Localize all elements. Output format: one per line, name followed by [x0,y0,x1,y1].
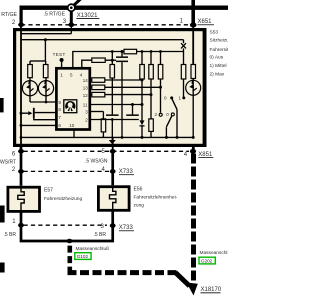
wire dashed ground horizontal [68,270,178,275]
node pin 2 junction dot [18,23,24,28]
wire x151 upper [150,52,152,65]
wire pole A to bus [176,109,178,137]
svg-text:1) Mittel: 1) Mittel [210,63,227,69]
wire: dashed connector line X851 below box [24,150,190,152]
wire pin6 line [21,124,56,126]
LED1 circle [22,81,37,96]
wire pin10 drop [73,130,75,138]
svg-text:10: 10 [69,123,75,128]
wire dashed ground down from junction [68,246,73,273]
capacitor C2 top plate [126,114,139,116]
svg-text:Fahrersitzlehnenhei-: Fahrersitzlehnenhei- [134,195,178,201]
node L4 x160.5 [159,50,162,53]
resistor x183.5 [181,65,186,80]
wire pin11 line [90,104,142,106]
wire B drop to indicator resistors [44,40,46,61]
wire pin 5 exit (right heater feed) [112,137,114,151]
wire: dashed connector X733 (lower) [24,224,108,226]
wire C0 to bus rail [121,62,123,137]
resistor on L4 [124,49,137,54]
wire diagonal to ground point [176,273,190,286]
wire stubs above resistors R-ind [29,61,31,65]
wire from resistor to C1 rail [105,59,116,61]
node LED2 to pin9 [45,101,48,104]
node contact 1 [182,96,185,99]
node pin4 (E56) dot [110,169,116,174]
svg-text:Masseanschl.: Masseanschl. [200,250,229,256]
resistor x160 [158,65,163,80]
wire pin3 line [90,111,104,113]
resistor indicator left [28,65,33,78]
switch lever B [166,116,172,127]
wire E56 to pin3 [111,210,114,225]
node pin12 to x151 [150,93,153,96]
resistor x151 [149,65,154,80]
svg-text:X851: X851 [198,152,213,158]
svg-text:11: 11 [83,102,88,107]
LED2 circle [38,81,53,96]
wire x142 lower [141,127,143,138]
svg-text:G202: G202 [201,259,213,264]
wire x142 upper [141,52,143,65]
capacitor C1 top plate [106,114,119,116]
svg-text:14: 14 [83,78,89,83]
wire: dashed connector X733 (upper) [24,170,110,172]
X symbol (crossed wires marker) [181,43,186,48]
capacitor C0 plates [116,56,128,58]
node ground junction [67,239,73,244]
wire C2 feed [132,105,134,115]
node pin5 dot [110,149,116,154]
wire pin14 line [90,79,142,81]
sensor bar [33,108,35,118]
wire: dashed connector line at top of S53 [21,24,193,26]
heater element symbol E57 [18,187,24,212]
wire pole B to bus [165,127,167,137]
node LED rail bus [192,136,195,139]
connector X13021 circle symbol [67,3,76,12]
node pin6 dot [18,149,24,154]
node C0 feed on L4 [121,50,124,53]
switch lever A [172,99,177,110]
green link box right [199,257,215,264]
svg-text:Sitzheizung: Sitzheizung [210,37,229,43]
resistor pin14 [92,78,105,83]
node pole B bus [165,136,168,139]
wire C1 below to bus [111,120,113,138]
wire stub to R3 [102,112,104,119]
component E56 heater box [98,187,129,211]
contact 2 open circle [159,113,162,116]
wire x151 to bus [150,131,152,137]
svg-text:S53: S53 [210,29,219,35]
contact 0B open circle [171,113,174,116]
node arrow tail on left rail [20,112,23,115]
node pin14 to x142 [141,79,144,82]
wire stubs LED right [192,79,194,81]
node C1 bottom on pin2 line [111,118,114,121]
node pin13 to x160 [159,86,162,89]
diode on x142 [140,120,145,125]
wire pin12 line [90,94,151,96]
wire x183.5 to L4 [183,48,185,64]
resistor pin12 [92,92,105,97]
svg-text:Masseanschluß: Masseanschluß [76,246,110,252]
wire pin8 line [35,112,57,114]
wire left chain down to E57 [20,146,23,186]
svg-text:12: 12 [83,93,89,98]
node pole A bus [176,136,179,139]
wire stubs LED2 [45,78,47,81]
fan symbol inside IC [64,100,77,113]
svg-text:13: 13 [83,86,89,91]
wire: thick drop from top edge to pin 1 [191,0,195,24]
svg-text:E56: E56 [134,187,143,193]
svg-text:.5 BR: .5 BR [4,232,17,238]
node pin 1 junction dot [190,23,197,28]
wire pin13 line [90,86,161,88]
left edge continuation marks [0,98,4,112]
svg-text:X733: X733 [119,169,134,175]
wire L1 horizontal [21,33,71,35]
wire x160 to contact 2 [160,79,162,113]
test point dot and wire [60,58,64,62]
contact 0A dot [170,96,173,99]
wire L4 horizontal [96,51,184,53]
node pin 3 junction dot [68,23,74,28]
wire x151 mid [150,79,152,119]
ground arrow to box frame [111,137,113,140]
node L4 x142 [141,50,144,53]
ground arrow head X18170 [187,283,198,296]
node pin2 (E57) dot [18,169,24,174]
wire pin5 feed (corner of L4) [73,52,96,69]
node L4 x151 [150,50,153,53]
node wireB junction [44,38,47,41]
resistor pin13 [92,85,105,90]
wire pin1 rail into box [192,27,194,65]
wire pin4 feed with corner [82,60,92,68]
wire x142 mid [141,79,143,120]
node pin6 line on left rail [20,124,23,127]
resistor x142 [140,65,145,80]
svg-text:X13021: X13021 [77,13,98,19]
node pin11 at x142 [141,103,144,106]
node at C1 rail [111,59,114,62]
wire internal ground bus [21,136,193,138]
wire C1 rail lower [111,78,113,114]
wire: top supply bus RT/GE [20,6,229,10]
heater element symbol E56 [110,187,116,212]
wire diagonal branch from X13021 going off top [74,0,81,5]
resistor C1-rail vertical [110,65,115,79]
node bus x122 [121,136,124,139]
svg-text:Fahrersitzheizung: Fahrersitzheizung [44,196,82,202]
svg-text:RT/GE: RT/GE [1,12,17,18]
resistor x151 lower [149,119,154,131]
resistor top horizontal [92,58,105,62]
svg-text:0) Aus: 0) Aus [210,55,224,61]
wire pin7 line [34,118,57,120]
LED right circle [186,80,201,95]
wire C0 feed [121,52,123,57]
wire pin 4 exit bottom right [192,145,195,151]
wire: drop from bus to pin 2 [20,6,23,25]
svg-text:WS/RT: WS/RT [0,160,16,166]
sensor arrow [21,112,29,114]
resistor pin1 rail [191,65,196,79]
svg-text:Fahrersitz: Fahrersitz [210,47,229,53]
svg-text:E57: E57 [44,188,53,194]
svg-text:2) Max: 2) Max [210,72,225,78]
node pin11 at C2 [131,103,134,106]
resistor indicator right [43,65,48,78]
wire L2 horizontal [21,39,184,41]
svg-text:.5 RT/GE: .5 RT/GE [44,12,66,18]
wire right chain down to E56 [111,151,114,185]
svg-text:X18170: X18170 [201,287,222,293]
chain x183.5: corner from L2 [183,40,185,44]
node pin3 (E56) dot [110,223,116,228]
node x142 bus [141,136,144,139]
wire: drop from X13021 to pin 3 [70,11,73,24]
wire pin2 line (cap bottom rail) [90,119,139,121]
svg-text:.5 BR: .5 BR [94,232,107,238]
svg-text:X733: X733 [119,225,134,231]
wire C1 rail upper [111,52,113,65]
component S53 switch unit box [15,30,205,146]
svg-text:zung: zung [134,204,145,209]
wire E57 to pin1 [20,211,23,225]
wire x160 upper [160,52,162,65]
green link box G102 [75,253,91,260]
wire pin9 line [30,101,56,103]
resistor R3 vertical [101,119,106,132]
wire x183.5 to contact 1 [183,79,185,97]
op-amp U1 control IC box [56,68,89,129]
wire: pin2 vertical inside box (left rail) [20,25,22,146]
svg-text:G102: G102 [77,254,89,259]
wire dashed ground right side [191,154,196,282]
wire ground collector left [21,225,113,241]
node pin4 dot [190,149,196,154]
wire stubs LED1 [29,78,31,81]
wire R3 to bus [102,132,104,138]
svg-text:TEST: TEST [53,52,66,57]
wire: indicator top connector [30,60,46,62]
svg-text:.5 WS/GN: .5 WS/GN [85,158,108,164]
component E57 heater box [8,187,40,211]
node L4/C1 rail [111,50,114,53]
node pin1 (E57) dot [18,223,24,228]
wire: pin3 stub into box [70,25,72,34]
